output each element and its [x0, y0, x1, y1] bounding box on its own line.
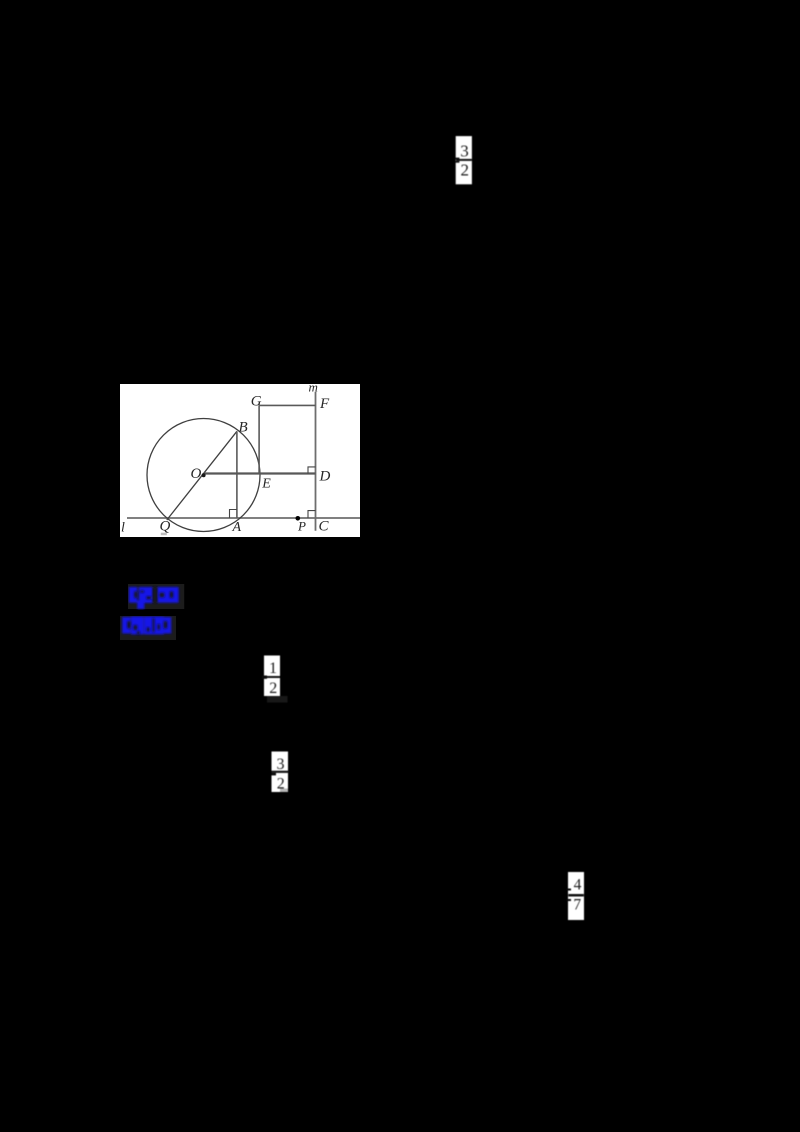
- fraction 3/2 (top, =3/2 formula image): [455, 135, 475, 191]
- node P dot: [296, 516, 301, 521]
- wire O-D horizontal: [204, 472, 316, 474]
- node O center dot: [202, 473, 206, 477]
- wire G-E vertical: [258, 405, 260, 473]
- geometry figure: circle O with line l, line m, rectangle-ish construction: [120, 384, 360, 542]
- blue label 1: 【考点】 highlighted: [128, 584, 185, 615]
- right angle at D: [308, 466, 316, 473]
- svg-text:3: 3: [277, 756, 285, 773]
- svg-text:2: 2: [269, 680, 277, 697]
- svg-text:O: O: [191, 466, 202, 482]
- svg-text:m: m: [309, 384, 318, 395]
- svg-text:4: 4: [574, 877, 582, 894]
- svg-text:B: B: [239, 419, 248, 435]
- fraction 4/7: [566, 872, 587, 926]
- svg-text:D: D: [319, 468, 331, 484]
- svg-text:l: l: [121, 520, 125, 535]
- fraction 3/2 (second): [270, 751, 291, 799]
- svg-text:C: C: [319, 518, 330, 534]
- svg-text:3: 3: [460, 141, 469, 160]
- svg-text:G: G: [251, 393, 262, 409]
- svg-text:2: 2: [461, 160, 470, 179]
- svg-text:A: A: [232, 519, 242, 534]
- wire diameter Q-B: [167, 431, 237, 520]
- right angle at C: [308, 510, 316, 517]
- svg-text:7: 7: [573, 896, 581, 913]
- white panel: [120, 384, 360, 537]
- svg-text:P: P: [297, 518, 306, 533]
- svg-text:F: F: [319, 396, 330, 412]
- svg-text:Q: Q: [160, 518, 171, 534]
- blue label 2: 【分析】 highlighted: [120, 616, 177, 646]
- wire G-F horizontal: [259, 404, 315, 406]
- smudge under Q: [161, 532, 167, 535]
- wire line l: [127, 517, 360, 519]
- fraction 1/2: [262, 655, 289, 709]
- right angle at A: [230, 509, 237, 518]
- svg-text:E: E: [261, 476, 271, 491]
- wire B-A vertical: [236, 431, 238, 518]
- svg-text:1: 1: [269, 660, 277, 677]
- wire line m: [315, 391, 317, 530]
- circle O: [147, 418, 260, 531]
